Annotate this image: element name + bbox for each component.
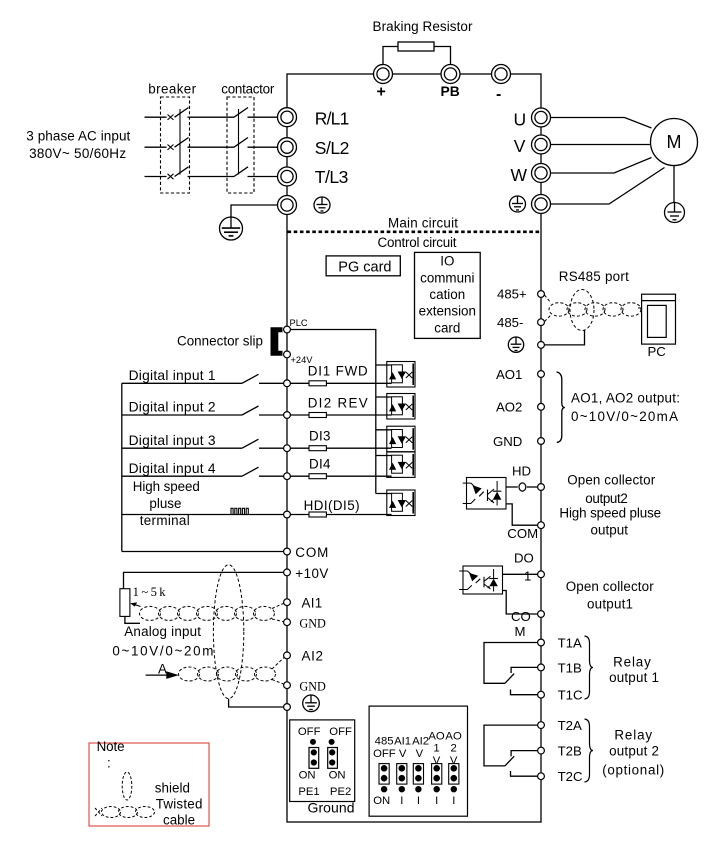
breaker pole 2 [168, 138, 189, 150]
svg-text:AO2: AO2 [496, 400, 522, 415]
ground symbol 485 [508, 337, 523, 352]
switch AI2 [413, 764, 423, 793]
wire U to motor [551, 118, 652, 129]
label 0~10V/0~20mA [112, 644, 213, 677]
label COM DO [511, 609, 531, 639]
svg-text:M: M [667, 132, 682, 152]
label U [514, 109, 527, 129]
svg-text:Digital input 3: Digital input 3 [129, 433, 216, 448]
brace AO output [557, 372, 565, 443]
label DIP switch captions [373, 730, 462, 806]
svg-text:T2A: T2A [558, 718, 582, 733]
svg-text:S/L2: S/L2 [315, 138, 350, 158]
label GND AO [493, 434, 522, 449]
svg-text:output1: output1 [587, 597, 633, 612]
svg-text:PG card: PG card [338, 259, 391, 275]
label Main circuit [388, 216, 458, 231]
terminal T1B [538, 664, 545, 671]
resistor DI1 [309, 381, 326, 386]
svg-text:485-: 485- [497, 315, 523, 330]
switch AI1 [397, 764, 407, 793]
optocoupler DI3 [376, 426, 415, 452]
svg-text:(optional): (optional) [602, 763, 664, 778]
svg-text:extension: extension [419, 304, 476, 319]
label AO output note [571, 390, 680, 424]
motor M circle [651, 119, 698, 166]
svg-text:OFF: OFF [329, 726, 352, 738]
connector slip black clip [271, 327, 283, 355]
wire HDI with pulse glyph [122, 508, 392, 514]
shield ellipse note [122, 772, 132, 800]
resistor DI3 [309, 446, 326, 451]
terminal HDI [284, 511, 291, 518]
label relay output 2 optional [602, 728, 664, 778]
label AO1 [496, 367, 522, 382]
wire 3-phase line T [145, 176, 278, 178]
relay 2 blade [505, 756, 514, 766]
wire DI4 with switch [122, 467, 392, 476]
contactor pole 3 [234, 167, 248, 177]
label T2C [558, 769, 583, 784]
svg-text:card: card [434, 320, 460, 335]
wire COM row [122, 551, 284, 553]
ground motor symbol [665, 203, 685, 223]
terminal DI3 [284, 445, 291, 452]
svg-text:Relay: Relay [613, 655, 651, 670]
label AI2 [302, 649, 324, 664]
terminal PE analog [284, 704, 291, 711]
svg-text:OFF: OFF [298, 726, 321, 738]
label Analog input [124, 624, 201, 639]
terminal +10V [284, 569, 291, 576]
svg-text:GND: GND [299, 679, 326, 693]
terminal W [532, 164, 551, 183]
svg-text:shield: shield [155, 780, 190, 795]
label PG card [338, 259, 391, 275]
svg-text:AI2: AI2 [302, 649, 324, 664]
wire HD opto to COM [506, 504, 538, 525]
svg-text:Control circuit: Control circuit [378, 235, 457, 250]
svg-text:DI1 FWD: DI1 FWD [308, 364, 368, 379]
label W [511, 165, 528, 185]
terminal PE left [278, 196, 297, 215]
svg-text:OFF: OFF [373, 748, 396, 760]
svg-text:AI1: AI1 [302, 596, 323, 611]
wire DO opto to terminal [503, 573, 538, 575]
terminal S/L2 [278, 138, 297, 157]
breaker link line [179, 109, 181, 175]
svg-text:T2C: T2C [558, 769, 583, 784]
switch PE1 [309, 739, 319, 768]
ground symbol inside right [510, 196, 526, 212]
IO communication extension card box [415, 252, 481, 338]
terminal PE right [532, 195, 551, 214]
svg-text:ON: ON [373, 795, 390, 807]
terminal AO2 [538, 403, 545, 410]
svg-text:ON: ON [329, 770, 346, 782]
svg-text::: : [107, 756, 111, 771]
label DI1 FWD [308, 364, 368, 379]
svg-text:DI2 REV: DI2 REV [308, 395, 368, 410]
wire potentiometer bottom [125, 616, 140, 623]
svg-text:High speed: High speed [133, 479, 200, 494]
svg-text:M: M [515, 624, 526, 639]
svg-text:V: V [450, 755, 458, 767]
svg-text:Analog input: Analog input [124, 624, 201, 639]
note box red [89, 743, 209, 826]
optocoupler DI1 [376, 362, 415, 388]
wire V to motor [551, 144, 651, 146]
label 1~5k [133, 585, 167, 599]
svg-text:communi: communi [420, 270, 474, 285]
svg-text:Digital input 1: Digital input 1 [129, 368, 216, 383]
wire HD opto to terminal with circle symbol [506, 483, 538, 491]
svg-text:T2B: T2B [558, 744, 582, 759]
label S/L2 [315, 138, 350, 158]
svg-text:380V~ 50/60Hz: 380V~ 50/60Hz [29, 146, 126, 161]
relay 1 contact T1B [511, 667, 537, 673]
twisted pair AI2 [179, 658, 285, 685]
label contactor [221, 82, 275, 97]
label Note [97, 739, 203, 828]
svg-text:AO1, AO2 output:: AO1, AO2 output: [571, 390, 680, 405]
terminal T2C [538, 773, 545, 780]
relay 1 contact T1C [511, 690, 538, 695]
svg-text:PC: PC [648, 344, 667, 359]
left rail digital inputs [121, 383, 123, 551]
svg-text:Open collector: Open collector [566, 579, 655, 594]
svg-text:I: I [400, 795, 403, 807]
label PE1 PE2 box [298, 726, 352, 798]
terminal DI1 [284, 380, 291, 387]
svg-text:3 phase AC input: 3 phase AC input [26, 129, 130, 144]
svg-text:pluse: pluse [149, 496, 181, 511]
breaker QF dashed box [161, 97, 190, 193]
label DI2 REV [308, 395, 368, 410]
contactor link line [238, 109, 240, 175]
svg-text:AI1: AI1 [394, 736, 411, 748]
terminal AO1 [538, 371, 545, 378]
relay 2 common wire [484, 725, 538, 766]
terminal U [532, 108, 551, 127]
label HD [512, 464, 531, 479]
svg-text:V: V [514, 136, 526, 156]
twisted pair RS485 [545, 295, 642, 322]
resistor HDI [309, 512, 326, 517]
label M motor [667, 132, 682, 152]
label IO communication extension card [419, 254, 476, 336]
svg-text:T1A: T1A [558, 635, 582, 650]
contactor KM dashed box [227, 97, 254, 193]
svg-text:Open collector: Open collector [567, 473, 656, 488]
label COM [295, 545, 328, 560]
ground input PE symbol [220, 217, 243, 240]
svg-text:1: 1 [524, 569, 531, 584]
terminal +24V [284, 351, 291, 358]
label Control circuit [378, 235, 457, 250]
terminal plus [374, 65, 393, 84]
svg-text:AI2: AI2 [412, 736, 429, 748]
brace relay 1 [585, 636, 594, 699]
optocoupler DI4 [376, 452, 415, 478]
label DO 1 [514, 551, 534, 584]
svg-text:High speed pluse: High speed pluse [559, 506, 661, 521]
svg-text:485: 485 [375, 736, 394, 748]
wire shield to PE terminal [229, 699, 284, 707]
label breaker [148, 82, 196, 97]
label T/L3 [315, 167, 349, 187]
svg-text:Twisted: Twisted [156, 796, 203, 811]
shield ellipse RS485 [570, 290, 594, 331]
terminal GND AO [538, 438, 545, 445]
label PB [441, 84, 460, 99]
svg-text:+: + [377, 84, 386, 101]
optocoupler DO output [459, 566, 502, 594]
svg-text:terminal: terminal [140, 513, 190, 528]
svg-text:2: 2 [450, 743, 456, 755]
svg-text:V: V [433, 755, 441, 767]
wire PLC to opto rail [287, 330, 376, 494]
terminal T2B [538, 747, 545, 754]
relay 2 contact T2B [511, 751, 537, 757]
ground symbol analog PE [303, 695, 320, 712]
svg-text:Digital input 2: Digital input 2 [129, 400, 216, 415]
svg-text:output2: output2 [585, 491, 628, 506]
label Digital input 1 [129, 368, 216, 383]
breaker pole 1 [168, 108, 189, 120]
terminal minus [492, 65, 511, 84]
terminal GND analog2 [284, 682, 291, 689]
brace relay 2 [585, 719, 594, 782]
terminal T2A [538, 722, 545, 729]
wire PE to motor [551, 168, 665, 205]
label minus [496, 86, 501, 103]
svg-text:0~10V/0~20mA: 0~10V/0~20mA [571, 409, 678, 424]
terminal AI1 [284, 599, 291, 606]
terminal T/L3 [278, 167, 297, 186]
label 3 phase AC input [26, 129, 130, 162]
terminal COM HD [538, 522, 545, 529]
terminal COM DO [538, 611, 545, 618]
potentiometer 1-5k [120, 589, 141, 617]
label T1C [558, 688, 583, 703]
svg-text:I: I [452, 795, 455, 807]
terminal 485- [538, 319, 545, 326]
svg-text:breaker: breaker [148, 82, 196, 97]
label COM HD [507, 526, 538, 541]
svg-text:A: A [158, 662, 167, 677]
resistor DI4 [309, 474, 326, 479]
svg-text:Note: Note [97, 739, 125, 754]
svg-text:W: W [511, 165, 528, 185]
svg-text:Main circuit: Main circuit [388, 216, 458, 231]
svg-text:contactor: contactor [221, 82, 275, 97]
breaker pole 3 [168, 167, 189, 179]
label AI1 [302, 596, 323, 611]
optocoupler HD output [463, 478, 506, 510]
switch AO2 [449, 764, 459, 793]
svg-text:Digital input 4: Digital input 4 [129, 461, 216, 476]
label 485+ [497, 287, 527, 302]
terminal AI2 [284, 652, 291, 659]
resistor DI2 [309, 413, 326, 418]
terminal DI4 [284, 473, 291, 480]
label Digital input 3 [129, 433, 216, 448]
svg-text:cation: cation [429, 287, 465, 302]
switch PE2 [328, 739, 338, 768]
terminal PB [441, 65, 460, 84]
terminal COM [284, 548, 291, 555]
svg-text:output: output [591, 523, 629, 538]
terminal GND analog1 [284, 619, 291, 626]
wire DI3 with switch [122, 439, 392, 448]
PE1 PE2 switch box [290, 720, 355, 802]
PG card box [326, 256, 400, 276]
svg-text:T1B: T1B [558, 660, 582, 675]
switch AO1 [432, 764, 442, 793]
svg-text:V: V [399, 748, 407, 760]
svg-text:I: I [417, 795, 420, 807]
label Ground [308, 800, 355, 816]
contactor pole 2 [234, 138, 248, 148]
terminal 485 ground [538, 342, 545, 349]
svg-text:Connector slip: Connector slip [177, 334, 263, 349]
svg-text:485+: 485+ [497, 287, 527, 302]
relay 1 common wire [484, 643, 538, 684]
label DI4 [309, 457, 331, 472]
svg-text:PE1: PE1 [298, 786, 319, 798]
terminal PLC [284, 326, 291, 333]
label AO2 [496, 400, 522, 415]
terminal V [532, 135, 551, 154]
label +10V [295, 566, 328, 581]
twisted cable note [95, 807, 155, 818]
DIP switch box analog [369, 706, 467, 816]
label +24V [291, 355, 314, 365]
svg-text:DO: DO [514, 551, 534, 566]
svg-text:T1C: T1C [558, 688, 583, 703]
label T1A [558, 635, 582, 650]
label Connector slip [177, 334, 263, 349]
wire DI1 with switch [122, 374, 392, 383]
svg-text:output 1: output 1 [609, 670, 659, 685]
wire DO opto to COM [503, 591, 538, 615]
svg-text:GND: GND [493, 434, 522, 449]
label PC [648, 344, 667, 359]
wire resistor leads [383, 47, 451, 65]
terminal DO [538, 571, 545, 578]
relay 1 blade [505, 674, 514, 684]
terminal HD [538, 484, 545, 491]
svg-text:PE2: PE2 [330, 786, 351, 798]
label T2A [558, 718, 582, 733]
svg-text:PLC: PLC [290, 318, 308, 328]
label T2B [558, 744, 582, 759]
svg-text:Ground: Ground [308, 800, 355, 816]
svg-text:HDI(DI5): HDI(DI5) [304, 498, 360, 513]
label plus [377, 84, 386, 101]
wire +10V to potentiometer [124, 572, 284, 588]
wire RS485 shield to ground [545, 331, 585, 345]
optocoupler HDI [376, 490, 415, 516]
wire to input ground [231, 205, 278, 217]
svg-text:ON: ON [299, 770, 316, 782]
wire 3-phase line R [145, 116, 278, 118]
svg-text:COM: COM [507, 526, 538, 541]
terminal R/L1 [278, 108, 297, 127]
svg-text:V: V [416, 748, 424, 760]
svg-text:output 2: output 2 [609, 743, 659, 758]
twisted pair AI1 [140, 603, 285, 622]
svg-text:T/L3: T/L3 [315, 167, 349, 187]
label High speed pluse terminal [133, 479, 200, 528]
terminal T1A [538, 639, 545, 646]
wire W to motor [551, 158, 652, 174]
label open collector output2 [559, 473, 661, 538]
label 485- [497, 315, 523, 330]
svg-text:1: 1 [433, 743, 439, 755]
svg-text:U: U [514, 109, 527, 129]
svg-text:HD: HD [512, 464, 531, 479]
resistor braking [398, 42, 434, 51]
label V [514, 136, 526, 156]
shield ellipse analog [213, 565, 243, 699]
svg-text:AO1: AO1 [496, 367, 522, 382]
svg-text:-: - [496, 86, 501, 103]
label Digital input 4 [129, 461, 216, 476]
label T1B [558, 660, 582, 675]
svg-text:DI3: DI3 [309, 429, 331, 444]
svg-text:IO: IO [440, 254, 454, 269]
relay 2 contact T2C [511, 771, 538, 776]
label HDI(DI5) [304, 498, 360, 513]
wire 3-phase line S [145, 146, 278, 148]
svg-text:0~10V/0~20m: 0~10V/0~20m [112, 644, 213, 659]
inverter main box outline [287, 74, 541, 822]
label DI3 [309, 429, 331, 444]
svg-text:GND: GND [299, 616, 326, 630]
label PLC [290, 318, 308, 328]
label relay output 1 [609, 655, 659, 686]
terminal 485+ [538, 291, 545, 298]
svg-text:RS485 port: RS485 port [559, 269, 629, 284]
wire motor to ground [673, 166, 675, 203]
svg-text:cable: cable [163, 813, 195, 828]
svg-text:R/L1: R/L1 [315, 109, 350, 129]
contactor pole 1 [234, 108, 248, 118]
label Braking Resistor [373, 19, 474, 34]
svg-text:COM: COM [295, 545, 328, 560]
ground symbol inside left [314, 197, 330, 213]
terminal T1C [538, 691, 545, 698]
label GND analog1 [299, 616, 326, 630]
label Digital input 2 [129, 400, 216, 415]
label R/L1 [315, 109, 350, 129]
PC box [642, 294, 676, 344]
svg-text:AO: AO [445, 730, 462, 742]
svg-text:Relay: Relay [614, 728, 652, 743]
svg-text:AO: AO [428, 730, 445, 742]
arrow analog input A [146, 671, 179, 679]
svg-text:DI4: DI4 [309, 457, 331, 472]
svg-text:CO: CO [511, 609, 531, 624]
svg-text:+10V: +10V [295, 566, 328, 581]
svg-text:I: I [435, 795, 438, 807]
label open collector output1 [566, 579, 655, 612]
switch 485 [379, 764, 389, 793]
svg-text:PB: PB [441, 84, 460, 99]
optocoupler DI2 [376, 394, 415, 420]
